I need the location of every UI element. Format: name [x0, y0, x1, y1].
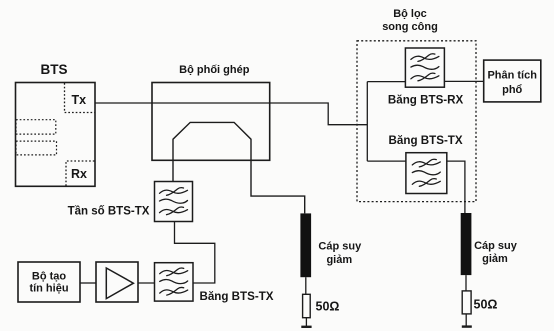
wire bus to F4 — [367, 160, 406, 162]
wire bar to resistor right — [465, 275, 467, 291]
svg-text:Cáp suy: Cáp suy — [318, 241, 362, 253]
attenuator cable right (black bar) — [461, 213, 472, 275]
wire bus to F3 — [367, 81, 405, 83]
svg-text:giảm: giảm — [326, 254, 352, 266]
signal generator box Bộ tạo tín hiệu — [18, 262, 80, 302]
Rx port (dashed) — [66, 161, 95, 186]
wire F4 to right attenuator — [447, 161, 465, 213]
terminal tick left — [301, 326, 311, 328]
attenuator cable left (black bar) — [300, 213, 311, 277]
svg-text:Tx: Tx — [72, 93, 87, 107]
coupler box Bộ phối ghép — [152, 83, 270, 161]
resistor 50Ω left — [303, 294, 311, 317]
svg-text:50Ω: 50Ω — [474, 298, 498, 312]
terminal tick right — [462, 325, 472, 327]
svg-text:BTS: BTS — [41, 62, 68, 77]
amplifier box — [96, 262, 138, 302]
BTS internal module 2 (dashed) — [16, 141, 57, 155]
wire bar to resistor left — [305, 277, 307, 294]
svg-text:Tần số BTS-TX: Tần số BTS-TX — [68, 206, 150, 218]
svg-text:Băng BTS-TX: Băng BTS-TX — [199, 290, 273, 303]
coupler bridge element — [173, 122, 305, 213]
wire amplifier to F2 — [138, 282, 155, 284]
wire generator to amplifier — [80, 282, 96, 284]
wire resistor to terminal right — [465, 314, 467, 327]
filter F2 symbol — [160, 268, 188, 295]
resistor 50Ω right — [462, 291, 471, 314]
svg-text:Cáp suy: Cáp suy — [474, 240, 518, 252]
filter F4 symbol — [412, 159, 440, 186]
BTS internal module 1 (dashed) — [16, 120, 56, 134]
filter F1 symbol — [160, 188, 188, 215]
svg-text:Bộ lọc: Bộ lọc — [393, 8, 427, 20]
wire F1 down to junction and to F2 — [175, 222, 215, 284]
svg-text:phổ: phổ — [502, 84, 522, 96]
BTS cabinet box — [16, 83, 96, 187]
filter F3 symbol — [411, 54, 439, 81]
spectrum analyzer box Phân tích phổ — [484, 60, 541, 102]
filter F4 Băng BTS-TX box — [406, 153, 447, 194]
duplexer internal bus wire — [366, 82, 368, 162]
wire resistor to terminal left — [305, 318, 307, 327]
svg-text:Bộ phối ghép: Bộ phối ghép — [179, 64, 250, 76]
filter F3 Băng BTS-RX box — [405, 48, 444, 87]
amplifier triangle — [106, 268, 133, 299]
filter F1 Tần số BTS-TX box — [155, 182, 193, 222]
duplexer dashed box Bộ lọc song công — [357, 41, 476, 202]
svg-text:50Ω: 50Ω — [316, 300, 340, 314]
wire F3 to spectrum analyzer — [444, 80, 483, 82]
svg-text:Bộ tạo: Bộ tạo — [32, 271, 67, 283]
svg-text:giảm: giảm — [482, 253, 508, 265]
svg-text:Phân tích: Phân tích — [487, 70, 537, 82]
svg-text:tín hiệu: tín hiệu — [29, 283, 68, 295]
svg-text:song công: song công — [382, 21, 438, 33]
svg-text:Rx: Rx — [71, 167, 87, 181]
svg-text:Băng BTS-TX: Băng BTS-TX — [389, 134, 463, 147]
svg-text:Băng BTS-RX: Băng BTS-RX — [388, 93, 464, 106]
filter F2 box — [155, 263, 194, 301]
Tx port (dashed) — [65, 83, 96, 113]
wire BTS Tx to coupler and through to junction — [95, 103, 367, 125]
